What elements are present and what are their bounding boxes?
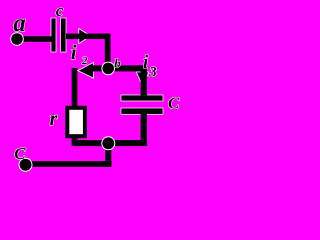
svg-text:2: 2 [81,55,88,67]
svg-text:a: a [13,10,26,37]
svg-text:i: i [71,40,77,64]
svg-text:r: r [50,108,58,130]
svg-text:b: b [114,56,121,71]
svg-text:C: C [14,144,26,163]
svg-text:c: c [56,1,64,20]
svg-text:i: i [143,52,149,73]
svg-text:3: 3 [148,64,157,80]
svg-text:C: C [168,93,180,112]
